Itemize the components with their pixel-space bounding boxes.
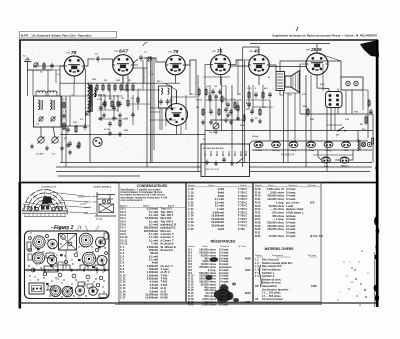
chassis small part 6 [31, 268, 35, 272]
wire left col down [59, 70, 61, 96]
table A row CA 7 [120, 226, 176, 230]
wire grid 75 left [205, 65, 211, 85]
table A row CA 2 [120, 210, 174, 214]
chassis rect part 7 [104, 233, 108, 239]
table A row CA 3 [120, 213, 174, 217]
capacitor C4 [66, 127, 70, 133]
wire drop x221 low [221, 77, 223, 131]
speck2 7 [358, 261, 359, 262]
wire drop r3 17 [237, 60, 239, 95]
ground GND13 [250, 118, 254, 123]
resistor R64 [137, 96, 139, 104]
wire link r3 9 [210, 119, 242, 121]
wire row bus top [88, 82, 136, 84]
IF can T2 [159, 86, 172, 108]
chassis rect part 3 [80, 265, 88, 270]
wire socket sq down [330, 108, 332, 131]
wire cluster link1 [196, 65, 211, 85]
switch contact 1 [204, 151, 206, 156]
wire 2525 riser [316, 44, 318, 54]
chassis small part 4 [95, 248, 98, 251]
wire spine V1-left [33, 65, 64, 67]
wire link y108 [150, 107, 176, 109]
chassis small part 10 [86, 275, 90, 279]
chassis dark bit 4 [60, 254, 63, 256]
resistor R10 row [90, 83, 92, 92]
svg-text:2525: 2525 [77, 297, 81, 299]
wire link r3 13 [27, 69, 60, 71]
coil core lines [41, 100, 54, 110]
wire spine V5-V6 [269, 66, 306, 68]
chassis mid rail [25, 269, 109, 271]
ground GND1 [30, 144, 34, 149]
socket S1 small circle [93, 137, 102, 146]
wire drop r3 18 [237, 100, 239, 120]
ground GND16 [214, 161, 218, 166]
wire bus mid left [60, 134, 205, 136]
ink blotch right 7 [375, 245, 377, 249]
chassis tick marks [28, 269, 105, 272]
wire drop x147 [146, 62, 148, 167]
chassis small part 7 [43, 272, 46, 275]
chassis dark bit 7 [46, 283, 49, 285]
gang capacitor CV1 [38, 137, 45, 144]
ink smudge table B 3 [217, 298, 223, 302]
table A row C 11 [120, 277, 168, 281]
resistor R17 row [132, 83, 134, 92]
svg-text:COUPE LATERALE: COUPE LATERALE [93, 185, 112, 188]
wire choke down [351, 90, 353, 114]
wire drop r3 26 [334, 107, 336, 130]
table B res row R 13 [188, 282, 226, 286]
inductor L1 [38, 100, 40, 110]
table C mat row 9 [255, 284, 317, 288]
resistor R22 [119, 119, 121, 128]
ground GND25 [229, 120, 233, 125]
table C row R 28 [255, 221, 295, 225]
resistor R21 [127, 99, 129, 108]
wire plate 43 to OT [269, 65, 276, 72]
wire drop x176a [176, 90, 178, 104]
wire drop r3 5 [117, 95, 119, 112]
wire drop r3 1 [73, 83, 75, 96]
table B row C 28 [188, 220, 247, 224]
wire link r3 3 [150, 111, 160, 113]
chassis small part 9 [72, 274, 76, 278]
table B res row R 7 [188, 265, 232, 269]
chassis tube/can 9 [50, 286, 61, 297]
speaker HP [285, 71, 300, 93]
capacitor C61 [229, 109, 233, 115]
wire drop r3 7 [137, 90, 139, 110]
switch contact 8 [245, 151, 247, 156]
table B row C 30 [188, 227, 245, 231]
wire drop r3 30 [47, 70, 49, 96]
tube V1 label 78 [66, 50, 77, 56]
wire drop x160 [159, 108, 161, 130]
ground GND11 [209, 120, 213, 125]
table A row C 6 [120, 261, 158, 265]
svg-text:tonalite: tonalite [84, 206, 92, 209]
capacitor C52 [112, 105, 116, 111]
tube V3 envelope [166, 55, 186, 75]
chassis dark bit 3 [37, 248, 40, 250]
resistor R70 [209, 94, 211, 103]
switch contact 4 [222, 151, 224, 156]
wire V2 to C3 [133, 59, 138, 63]
chassis tube/can 8 [97, 256, 107, 266]
tube V6 envelope [306, 53, 328, 75]
table A row C 13 [120, 283, 168, 287]
table B res row R 16 [188, 291, 251, 295]
table C row R 27 [255, 217, 295, 221]
table C mat row 2 [255, 261, 293, 265]
table C row R 21 [255, 197, 295, 201]
L3 core [91, 86, 92, 106]
ground GND20 [99, 116, 103, 121]
chassis gang capacitor [59, 234, 77, 251]
ballast R52 [372, 138, 374, 144]
speck2 4 [343, 261, 344, 262]
wire top link v1 [60, 65, 64, 67]
ground GND23 [236, 116, 240, 121]
svg-text:78: 78 [49, 251, 51, 253]
svg-text:M.P.R. - 110, Boulevard Voltai: M.P.R. - 110, Boulevard Voltaire, Paris … [21, 34, 92, 38]
wire drop x368 [367, 114, 369, 138]
resistor R32 [202, 108, 204, 117]
inductor L1 top [36, 91, 46, 93]
table A row C 14 [120, 286, 166, 290]
table A row C 12 [120, 280, 168, 284]
chassis tube/can 11 [75, 286, 84, 295]
chassis rect part 5 [95, 265, 104, 270]
table B res header [188, 245, 247, 248]
table A row C 1 [120, 245, 176, 249]
wire socket sq down2 [337, 108, 339, 115]
capacitor C55 [247, 102, 251, 108]
front leader lines [23, 192, 89, 213]
speck 4 [364, 289, 366, 291]
frame left border [19, 40, 21, 182]
chassis tube/can 3 [79, 233, 93, 247]
chassis dark bit 5 [98, 246, 101, 248]
chassis tube/can 7 [82, 252, 96, 266]
table A row CA 11 [120, 238, 174, 242]
table B res row R 11 [188, 277, 228, 281]
wire V4 plate right [231, 60, 243, 65]
wire drop r3 25 [322, 64, 324, 91]
svg-text:MF1: MF1 [83, 247, 87, 249]
wire bus bottom 3b [250, 171, 371, 173]
wire drop x270 [269, 100, 271, 140]
wire V1 plate to C2 [84, 59, 95, 66]
materiel brace [260, 265, 262, 287]
wire link r3 6 [246, 99, 270, 101]
wire drop r3 9 [161, 108, 163, 130]
table C row R 26 [255, 214, 296, 218]
table A row CA 5 [120, 219, 174, 223]
svg-text:bouton cadran: bouton cadran [84, 195, 99, 198]
ink smudge res mid [210, 257, 218, 262]
svg-text:R 20: R 20 [188, 303, 194, 307]
svg-text:50M: 50M [240, 125, 244, 127]
table B res row R 19 [188, 300, 251, 304]
front dial dark [42, 197, 53, 204]
table B res row R 18 [188, 297, 228, 301]
wire drop r3 15 [209, 85, 211, 110]
wire drop r3 27 [345, 90, 347, 114]
resistor R30 [198, 88, 200, 97]
capacitor C54 [224, 107, 228, 113]
resistor R72 [243, 114, 245, 123]
table B row C 23 [188, 204, 247, 208]
wire drop r3 4 [113, 95, 115, 119]
wire drop r3 11 [170, 97, 172, 108]
trimmer CT4 [85, 110, 90, 115]
wire y90 mid link [123, 89, 160, 91]
table B row C 29 [188, 224, 247, 228]
front knob row [29, 207, 62, 211]
capacitor C20 [211, 89, 215, 95]
resistor R61 [63, 122, 65, 131]
chassis dark bit 0 [50, 265, 53, 267]
output transformer T3 [276, 72, 285, 91]
table C mat header [255, 254, 317, 257]
wire drop r3 19 [248, 85, 250, 110]
ground GND15 [205, 160, 209, 165]
ground GND5 [76, 144, 80, 149]
table C mat row 8 [262, 281, 282, 285]
header scratch mark [296, 27, 298, 32]
tube V4 label 75 [212, 49, 223, 55]
frame top border [19, 39, 378, 41]
resistor R65 [237, 104, 239, 113]
svg-text:fixation: fixation [96, 218, 104, 221]
capacitor C30 [254, 92, 258, 98]
tube V1 envelope [64, 56, 84, 76]
ground GND6 [102, 113, 106, 118]
chassis rect part 1 [44, 266, 58, 272]
chassis lugs [33, 269, 106, 272]
wire drop x128 [127, 75, 129, 99]
table C row R 25 [255, 210, 304, 214]
front view base [22, 211, 68, 217]
wire bus bottom 4 [58, 175, 140, 177]
table B res row R 1 [188, 248, 228, 252]
table C mat header marks [257, 256, 317, 258]
resistor R16 row [126, 83, 128, 92]
wire spine under V4 [203, 76, 230, 78]
ink smudge res tail [233, 298, 239, 302]
chassis small part 11 [99, 276, 102, 279]
ink smudge table B 1 [220, 285, 229, 291]
capacitor C5 [83, 124, 87, 130]
wire x300 down [299, 75, 301, 114]
wire V5 down [258, 75, 260, 85]
inductor T2a [161, 88, 163, 94]
table B row C 19 [188, 191, 247, 195]
bottom border smudge [115, 303, 322, 305]
table A row C 17 [120, 296, 168, 300]
resistor R42 [259, 108, 261, 117]
table C mat row 7 [262, 277, 282, 281]
header imprint box [20, 32, 117, 39]
table B res row R 20 [188, 303, 228, 307]
wire drop r3 10 [165, 108, 167, 126]
wire bus bottom 2b [250, 166, 373, 168]
trimmer CT5 [146, 56, 151, 61]
table B res row R 5 [188, 259, 228, 263]
wire filament bottom rail [252, 149, 372, 151]
chassis rect part 8 [78, 282, 85, 286]
scratch mid top [143, 42, 148, 46]
wire choke to plug [363, 90, 368, 114]
chassis tube/can 2 [48, 239, 58, 249]
wire drop r3 24 [310, 75, 312, 141]
table B row C 21 [188, 197, 247, 201]
scan wash tables [115, 182, 325, 302]
wire hbus under tubes [88, 82, 180, 84]
resistor R71 [221, 95, 223, 104]
switch arm [236, 158, 243, 164]
table C header rule [254, 186, 322, 188]
table C mat row 13 [255, 297, 283, 301]
wire drop x62 [61, 96, 63, 163]
trimmer CT1 [33, 62, 38, 67]
chassis extra rect 1 [87, 284, 93, 288]
speck2 6 [337, 299, 338, 300]
table C mat row 10 [262, 287, 290, 291]
table C mat row 4 [255, 268, 281, 272]
wire fil row2 link b [335, 159, 340, 161]
table A row CA 9 [120, 232, 174, 236]
chassis tube/can 12 [89, 287, 98, 296]
table C row R 19 [255, 190, 295, 194]
capacitor C50 [62, 113, 66, 119]
chassis vertical rail [65, 251, 67, 270]
table B row C 22 [188, 200, 247, 204]
wire V4 down [220, 75, 222, 85]
speck 8 [350, 262, 351, 263]
wire drop x216 [215, 100, 217, 123]
wire link r3 2 [98, 109, 118, 111]
gang capacitor CV2 [52, 137, 59, 144]
wire V1 bottom [73, 76, 75, 83]
socket 2525 square [326, 89, 343, 108]
wire drop r3 29 [32, 70, 34, 96]
trimmer CT3 [50, 116, 55, 121]
resistor R62 [104, 100, 106, 108]
table C row R 18 [255, 187, 295, 191]
capacitor C31 [268, 92, 272, 98]
table A row CA 4 [120, 216, 172, 220]
chassis small part 16 [29, 237, 32, 240]
wire drop r3 16 [225, 85, 227, 105]
table B row C 26 [188, 214, 247, 218]
svg-text:2,000 ohms: 2,000 ohms [202, 303, 216, 307]
table C mat row 1 [255, 258, 279, 262]
tube V2 label 6A7 [114, 49, 128, 55]
resistor R51 [365, 115, 367, 125]
chassis extra rect 4 [58, 262, 63, 265]
wire link y83 left [60, 82, 88, 84]
filament socket F8 [340, 157, 349, 163]
wire drop r3 22 [287, 93, 289, 162]
wire drop r3 31 [55, 70, 57, 83]
table A row CA 8 [120, 229, 172, 233]
wire drop x306 [305, 75, 307, 167]
wire OT top to choke [280, 61, 341, 77]
table A header rule [119, 207, 186, 209]
figure comma [80, 226, 83, 229]
wire spine V4-V5 [231, 65, 249, 67]
capacitor C16 [166, 99, 170, 105]
tube V5 label 43 [249, 49, 260, 55]
chassis tube/can 1 [33, 236, 45, 248]
chassis transformer [29, 283, 44, 294]
ink blotch right 5 [374, 285, 378, 291]
wire bus bottom 2 [56, 166, 201, 168]
wire C2 to V2 [101, 59, 113, 63]
chassis rivet dots [27, 232, 103, 287]
chassis small part 8 [58, 273, 62, 277]
svg-text:volume - inter.: volume - inter. [84, 201, 99, 204]
filament socket F3 [289, 141, 298, 147]
chassis small part 12 [46, 235, 49, 238]
wire drop r3 21 [262, 85, 264, 108]
ground GND17 [230, 161, 234, 166]
ink smudge res big [214, 289, 232, 302]
wire link r3 8 [252, 106, 270, 108]
table B res row R 12 [188, 280, 228, 284]
ink blob top right corner [360, 40, 379, 57]
speck 2 [354, 269, 356, 271]
wire V3 bottom [175, 75, 177, 83]
wire drop x327 [326, 108, 328, 172]
wire link y120 [150, 119, 176, 121]
table C mat row 6 [255, 274, 275, 278]
wire drop x283 [283, 91, 285, 163]
resistor R33 [218, 108, 220, 117]
wire ant to coil [28, 69, 53, 71]
svg-text:43: 43 [64, 298, 66, 300]
resistor R-ant [43, 62, 45, 71]
resistor R31 [205, 88, 207, 97]
resistor R11 row [96, 83, 98, 92]
wire V2 plate right [133, 64, 138, 66]
table B row C 20 [188, 194, 247, 198]
band switch box [201, 144, 250, 177]
ink smudge table B 2 [227, 292, 234, 300]
wire V2 bottom [122, 75, 124, 83]
table C row R 30 [255, 227, 295, 231]
chassis plan outline [25, 231, 110, 299]
switch contact 2 [210, 151, 212, 156]
resistor R14 row [114, 83, 116, 92]
resistor R2 [75, 125, 77, 134]
speck 10 [340, 292, 341, 293]
resistor R12 row [102, 83, 104, 92]
wire mains bus [205, 130, 373, 132]
svg-text:75: 75 [52, 298, 54, 300]
table A row CA 1 [120, 207, 173, 211]
chassis tube/can 10 [62, 286, 73, 297]
chassis leaders [76, 226, 88, 232]
capacitor C60 [214, 94, 218, 100]
wire drop r3 20 [252, 85, 254, 112]
table B row C 25 [188, 210, 247, 214]
wire osc circle up [165, 83, 177, 103]
